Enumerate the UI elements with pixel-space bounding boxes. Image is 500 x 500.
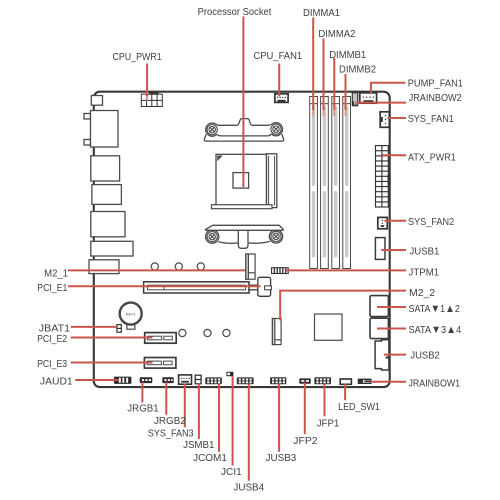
pointer SYS_FAN3 — [184, 384, 186, 428]
pointer CPU_PWR1 — [146, 64, 148, 97]
svg-text:PCI_E1: PCI_E1 — [37, 283, 67, 294]
chipset — [315, 314, 343, 340]
connector JUSB2 — [375, 340, 389, 370]
pointer JRAINBOW1 — [371, 381, 407, 383]
pointer JCOM1 — [218, 384, 220, 452]
connector SYS_FAN2 — [378, 217, 388, 228]
connector JFP1 — [314, 377, 331, 384]
connector SYS_FAN1 — [380, 112, 389, 128]
connector JSMB1 — [195, 375, 201, 384]
svg-text:JFP1: JFP1 — [317, 418, 340, 429]
connector SYS_FAN3 — [179, 375, 192, 384]
svg-text:JUSB4: JUSB4 — [233, 482, 264, 493]
svg-text:JSMB1: JSMB1 — [183, 440, 215, 451]
connector JUSB1 — [375, 238, 385, 260]
pointer SYS_FAN2 — [385, 220, 407, 222]
connector CPU_PWR1 — [141, 94, 162, 106]
pointer JFP1 — [324, 384, 326, 417]
pointer JUSB1 — [381, 249, 406, 251]
switch LED_SW1 — [340, 379, 351, 384]
pointer DIMMB2 — [345, 74, 347, 110]
connector JRAINBOW1 — [358, 379, 370, 383]
slot PCI_E1 — [144, 282, 249, 293]
svg-text:PCI_E2: PCI_E2 — [37, 334, 67, 345]
mounting hole row1 a — [151, 263, 158, 270]
pointer PCI_E1 — [68, 285, 261, 287]
pointer PCI_E3 — [71, 362, 153, 364]
connector JUSB4 — [237, 377, 254, 384]
mounting hole row1 b — [175, 263, 182, 270]
svg-text:Processor Socket: Processor Socket — [198, 7, 272, 18]
pointer JUSB4 — [248, 384, 250, 481]
svg-text:SYS_FAN1: SYS_FAN1 — [408, 114, 455, 125]
svg-text:ATX_PWR1: ATX_PWR1 — [408, 152, 456, 163]
ATX_PWR1 latch tab — [388, 175, 391, 186]
pointer LED_SW1 — [344, 384, 346, 400]
svg-text:JRAINBOW2: JRAINBOW2 — [409, 93, 462, 104]
mounting hole row1 c — [197, 263, 204, 270]
connector JRGB1 — [140, 377, 153, 383]
heatsink screw bottom-left — [207, 232, 217, 242]
svg-text:JUSB1: JUSB1 — [410, 247, 440, 258]
heatsink screw bottom-right — [271, 231, 281, 241]
svg-text:DIMMB2: DIMMB2 — [339, 65, 376, 76]
svg-text:BAT1: BAT1 — [126, 311, 136, 316]
svg-text:CPU_PWR1: CPU_PWR1 — [113, 52, 163, 63]
pointer DIMMB1 — [333, 58, 335, 110]
svg-text:JRAINBOW1: JRAINBOW1 — [409, 378, 461, 389]
rear IO PS2/USB block tab upper — [84, 114, 91, 120]
heatsink bracket top — [204, 119, 283, 142]
heatsink screw top-left — [207, 125, 217, 135]
rear IO audio block — [91, 241, 133, 256]
svg-text:DIMMA1: DIMMA1 — [303, 8, 340, 19]
svg-text:JRGB2: JRGB2 — [154, 416, 186, 427]
mounting hole row2 c — [223, 329, 230, 336]
connector SATA 3-4 — [370, 318, 388, 338]
pointer JRGB1 — [141, 382, 143, 403]
pointer DIMMA1 — [312, 18, 314, 111]
connector CPU_FAN1 — [275, 94, 288, 103]
socket base lip — [212, 205, 273, 209]
svg-text:JUSB2: JUSB2 — [410, 351, 440, 362]
svg-text:DIMMA2: DIMMA2 — [318, 29, 355, 40]
pointer SATA12 — [377, 306, 406, 308]
pointer JRGB2 — [165, 382, 167, 415]
pointer M2_1 — [68, 269, 245, 271]
pointer JFP2 — [304, 383, 306, 435]
svg-text:DIMMB1: DIMMB1 — [329, 50, 366, 61]
PCI_E1 latch arm — [249, 277, 271, 296]
heatsink screw top-right — [271, 124, 281, 134]
mounting hole row2 b — [204, 329, 211, 336]
connector JRGB2 — [162, 377, 173, 383]
connector SATA 1-2 — [370, 296, 388, 317]
svg-text:M2_2: M2_2 — [409, 288, 436, 299]
connector JAUD1 — [114, 377, 131, 384]
connector M2_2 — [272, 319, 281, 345]
pointer DIMMA2 — [323, 39, 325, 111]
svg-text:JCOM1: JCOM1 — [193, 453, 227, 464]
svg-text:PCI_E3: PCI_E3 — [37, 359, 67, 370]
svg-text:SATA▼3▲4: SATA▼3▲4 — [409, 324, 462, 336]
svg-text:JFP2: JFP2 — [293, 436, 318, 447]
pointer JUSB3 — [278, 384, 280, 452]
connector JTPM1 — [272, 268, 289, 274]
connector ATX_PWR1 — [376, 146, 389, 207]
rear IO port block small square — [91, 96, 102, 106]
svg-text:SYS_FAN3: SYS_FAN3 — [148, 429, 194, 440]
connector PUMP_FAN1 — [360, 93, 377, 103]
pointer SATA34 — [377, 328, 406, 330]
pointer JRAINBOW2 — [355, 102, 406, 104]
connector CPU_PWR1 dark key — [149, 92, 159, 95]
connector JCOM1 — [205, 377, 222, 384]
pointer ATX_PWR1 — [382, 154, 406, 156]
pointer JBAT1 — [71, 326, 117, 328]
pointer JUSB2 — [384, 354, 406, 356]
svg-text:JTPM1: JTPM1 — [409, 267, 440, 278]
jumper JBAT1 — [117, 325, 121, 333]
DIMM slots DIMMA1 DIMMA2 DIMMB1 DIMMB2 — [310, 97, 351, 269]
svg-text:LED_SW1: LED_SW1 — [338, 402, 380, 413]
pointer SYS_FAN1 — [387, 117, 406, 119]
pointer M2_2 — [280, 291, 406, 321]
connector JFP2 — [299, 378, 311, 383]
slot PCI_E2 — [145, 333, 177, 344]
pointer JCI1 — [232, 376, 234, 465]
pointer JSMB1 — [198, 383, 200, 439]
connector M2_1 — [246, 254, 255, 279]
pointer JAUD1 — [75, 379, 119, 381]
pointer PCI_E2 — [71, 337, 153, 339]
slot PCI_E3 — [144, 358, 176, 369]
rear IO PS2/USB block — [91, 111, 119, 148]
svg-text:JAUD1: JAUD1 — [40, 377, 73, 388]
rear IO PS2/USB block tab lower — [84, 140, 91, 146]
rear IO LAN block — [91, 212, 125, 237]
svg-text:JCI1: JCI1 — [221, 467, 242, 478]
rear IO USB block 3 — [92, 185, 122, 205]
connector JUSB3 — [270, 377, 286, 384]
mounting hole row2 a — [179, 329, 186, 336]
pointer Processor Socket — [242, 17, 244, 188]
svg-text:CPU_FAN1: CPU_FAN1 — [254, 51, 303, 62]
heatsink bracket bottom — [206, 225, 284, 248]
JUSB2 notch — [386, 356, 389, 358]
rear IO USB block 2 — [91, 156, 120, 181]
pointer PUMP_FAN1 — [371, 83, 406, 93]
svg-text:JRGB1: JRGB1 — [127, 404, 159, 415]
connector JRAINBOW2 — [352, 93, 358, 106]
red pointer lines — [68, 17, 406, 481]
svg-text:SATA▼1▲2: SATA▼1▲2 — [409, 303, 461, 315]
board outline — [94, 92, 390, 387]
svg-text:SYS_FAN2: SYS_FAN2 — [408, 217, 455, 228]
socket corner triangle — [217, 156, 223, 162]
pointer CPU_FAN1 — [278, 64, 280, 97]
svg-text:M2_1: M2_1 — [44, 268, 68, 279]
jumper JCI1 — [226, 372, 233, 377]
svg-text:JUSB3: JUSB3 — [266, 453, 297, 464]
pointer JTPM1 — [286, 269, 406, 271]
processor socket AM4 — [216, 154, 277, 208]
battery BAT1 — [120, 303, 142, 330]
svg-text:PUMP_FAN1: PUMP_FAN1 — [408, 79, 464, 90]
rear IO block 6 — [89, 260, 119, 274]
